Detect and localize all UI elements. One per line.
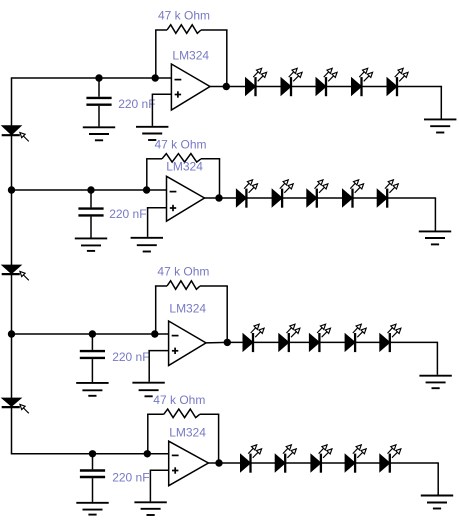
wire: stage 2 feedback loop (left riser, top run, right drop) [146,159,220,196]
label: U1 part number LM324 [172,48,209,62]
wire: stage 1 inverting-input net from rail to op-amp [11,77,172,79]
LED D17 [275,445,296,473]
svg-text:220 nF: 220 nF [112,350,149,364]
resistor R1 47 k Ohm [167,25,201,34]
label: C1 value 220 nF [118,97,155,111]
LED D3 [316,68,337,96]
LED D15 [380,324,401,352]
LED D8 [307,180,328,208]
node: stage 3 output junction [224,339,231,346]
label: R1 value 47 k Ohm [158,8,210,22]
svg-text:220 nF: 220 nF [109,207,146,221]
capacitor C3 220 nF [80,334,105,382]
LED D18 [311,445,332,473]
svg-text:47 k Ohm: 47 k Ohm [155,138,207,152]
LED D1 [246,68,267,96]
LED D5 [387,68,408,96]
capacitor C2 220 nF [78,190,103,238]
wire: stage 3 inverting-input net from rail to op-amp [11,333,169,335]
wire: stage 3 non-inverting input to ground [148,351,168,382]
ground: stage 1 LED chain ground [424,119,456,132]
LED D10 [377,180,398,208]
wire: left sensor rail (top-left corner down to bottom stage) [11,78,13,454]
label: U4 part number LM324 [169,425,206,439]
photodiode PD1 [2,126,29,142]
svg-text:LM324: LM324 [172,48,209,62]
ground: U4 non-inverting input ground [134,502,166,515]
LED D14 [345,324,366,352]
node: stage 1 output junction [223,83,230,90]
LED D2 [281,68,302,96]
node: stage 4 inverting input junction [144,450,151,457]
wire: stage 2 non-inverting input to ground [147,208,167,237]
photodiode PD2 [2,265,29,280]
wire: stage 1 feedback loop (left riser, top run, right drop) [155,30,228,85]
label: U2 part number LM324 [166,160,203,174]
LED D13 [309,324,330,352]
node: stage 2 inverting input junction [143,186,150,193]
svg-text:47 k Ohm: 47 k Ohm [157,264,209,278]
svg-text:LM324: LM324 [166,160,203,174]
ground: stage 3 LED chain ground [419,376,451,389]
node: stage 4 output junction [215,459,222,466]
ground: C2 ground [75,238,107,251]
node: stage 4 capacitor junction [89,450,96,457]
wire: stage 4 inverting-input net from rail to op-amp [11,453,169,455]
label: C4 value 220 nF [112,470,149,484]
wire: stage 1 output to LED chain [210,87,442,119]
LED D11 [243,324,264,352]
LED D9 [343,180,364,208]
label: R4 value 47 k Ohm [153,393,205,407]
svg-text:LM324: LM324 [169,302,206,316]
label: R3 value 47 k Ohm [157,264,209,278]
ground: stage 4 LED chain ground [421,496,453,509]
resistor R2 47 k Ohm [162,154,201,163]
label: R2 value 47 k Ohm [155,138,207,152]
svg-text:LM324: LM324 [169,425,206,439]
op-amp U4 LM324 (inverting comparator stage) [169,441,209,486]
node: stage 1 capacitor junction [95,74,102,81]
ground: C4 ground [76,503,108,515]
label: C3 value 220 nF [112,350,149,364]
node: stage 3 capacitor junction [89,330,96,337]
ground: stage 2 LED chain ground [419,231,451,244]
ground: U1 non-inverting input ground [136,127,168,140]
label: U3 part number LM324 [169,302,206,316]
wire: stage 2 output to LED chain [205,198,437,231]
ground: C1 ground [83,127,115,140]
node: stage 2 capacitor junction [87,186,94,193]
wire: stage 3 feedback loop (left riser, top run, right drop) [155,286,228,340]
capacitor C4 220 nF [80,454,105,502]
resistor R3 47 k Ohm [167,281,200,290]
svg-text:47 k Ohm: 47 k Ohm [158,8,210,22]
ground: U2 non-inverting input ground [131,238,163,252]
wire: stage 4 output to LED chain [208,463,439,495]
LED D16 [241,445,262,473]
wire: stage 4 feedback loop (left riser, top run, right drop) [147,414,219,461]
svg-text:220 nF: 220 nF [112,470,149,484]
LED D7 [272,180,293,208]
capacitor C1 220 nF [86,78,111,126]
photodiode PD3 [2,398,29,413]
ground: U3 non-inverting input ground [132,383,164,397]
LED D4 [352,68,373,96]
LED D12 [279,324,300,352]
wire: stage 2 inverting-input net from rail to op-amp [11,189,167,191]
LED D20 [380,445,401,473]
wire: stage 3 output to LED chain [206,342,438,374]
wire: stage 1 non-inverting input to ground [152,94,172,126]
resistor R4 47 k Ohm [164,409,200,418]
op-amp U2 LM324 (inverting comparator stage) [167,176,205,221]
node: stage 3 inverting input junction [151,330,158,337]
wire: stage 4 non-inverting input to ground [150,470,169,501]
node: stage 1 inverting input junction [152,74,159,81]
ground: C3 ground [76,383,108,396]
label: C2 value 220 nF [109,207,146,221]
LED D6 [236,180,257,208]
svg-text:47 k Ohm: 47 k Ohm [153,393,205,407]
op-amp U1 LM324 (inverting comparator stage) [171,64,210,110]
svg-text:220 nF: 220 nF [118,97,155,111]
op-amp U3 LM324 (inverting comparator stage) [169,321,206,366]
node: stage 2 output junction [215,194,222,201]
node: stage 3 rail junction [8,330,15,337]
node: stage 2 rail junction [8,186,15,193]
LED D19 [345,445,366,473]
